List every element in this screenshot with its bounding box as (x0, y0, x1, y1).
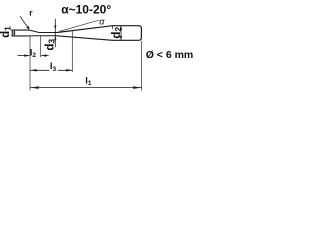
dimension d1 arrow (13, 30, 15, 36)
angle reference line (alpha) (60, 20, 100, 31)
tool tip bottom edge (11, 35, 28, 37)
extension line A (tip end) (29, 36, 31, 91)
shank outline (113, 26, 142, 41)
svg-text:α: α (99, 16, 105, 26)
dimension l2 (outside arrows) (18, 54, 49, 56)
dimension l3 (30, 69, 72, 71)
extension line B (neck start) (40, 36, 42, 57)
dimension d2 arrow (120, 26, 122, 40)
label d3 (rotated) (44, 38, 57, 52)
radius r leader (20, 16, 30, 30)
dimension d3 line with arrows (54, 19, 56, 48)
extension line C (taper reference) (71, 31, 73, 72)
tool tip top edge (11, 29, 29, 31)
extension line D (shank end) (141, 41, 143, 91)
shank-taper junction tick (112, 26, 114, 29)
step-down top edge (30, 30, 39, 32)
dimension l1 (30, 86, 141, 89)
tool tip left face (11, 30, 13, 36)
svg-text:d1: d1 (0, 26, 13, 38)
neck bottom edge (39, 35, 57, 37)
svg-text:α~10-20°: α~10-20° (61, 3, 111, 17)
label l3 (49, 61, 57, 73)
taper bottom edge (57, 36, 113, 41)
step-down bottom edge (29, 35, 39, 37)
svg-text:Ø < 6 mm: Ø < 6 mm (146, 49, 194, 61)
svg-text:d3: d3 (44, 39, 57, 51)
neck top edge (39, 32, 57, 34)
taper top edge (57, 26, 113, 33)
svg-text:d2: d2 (111, 27, 124, 39)
